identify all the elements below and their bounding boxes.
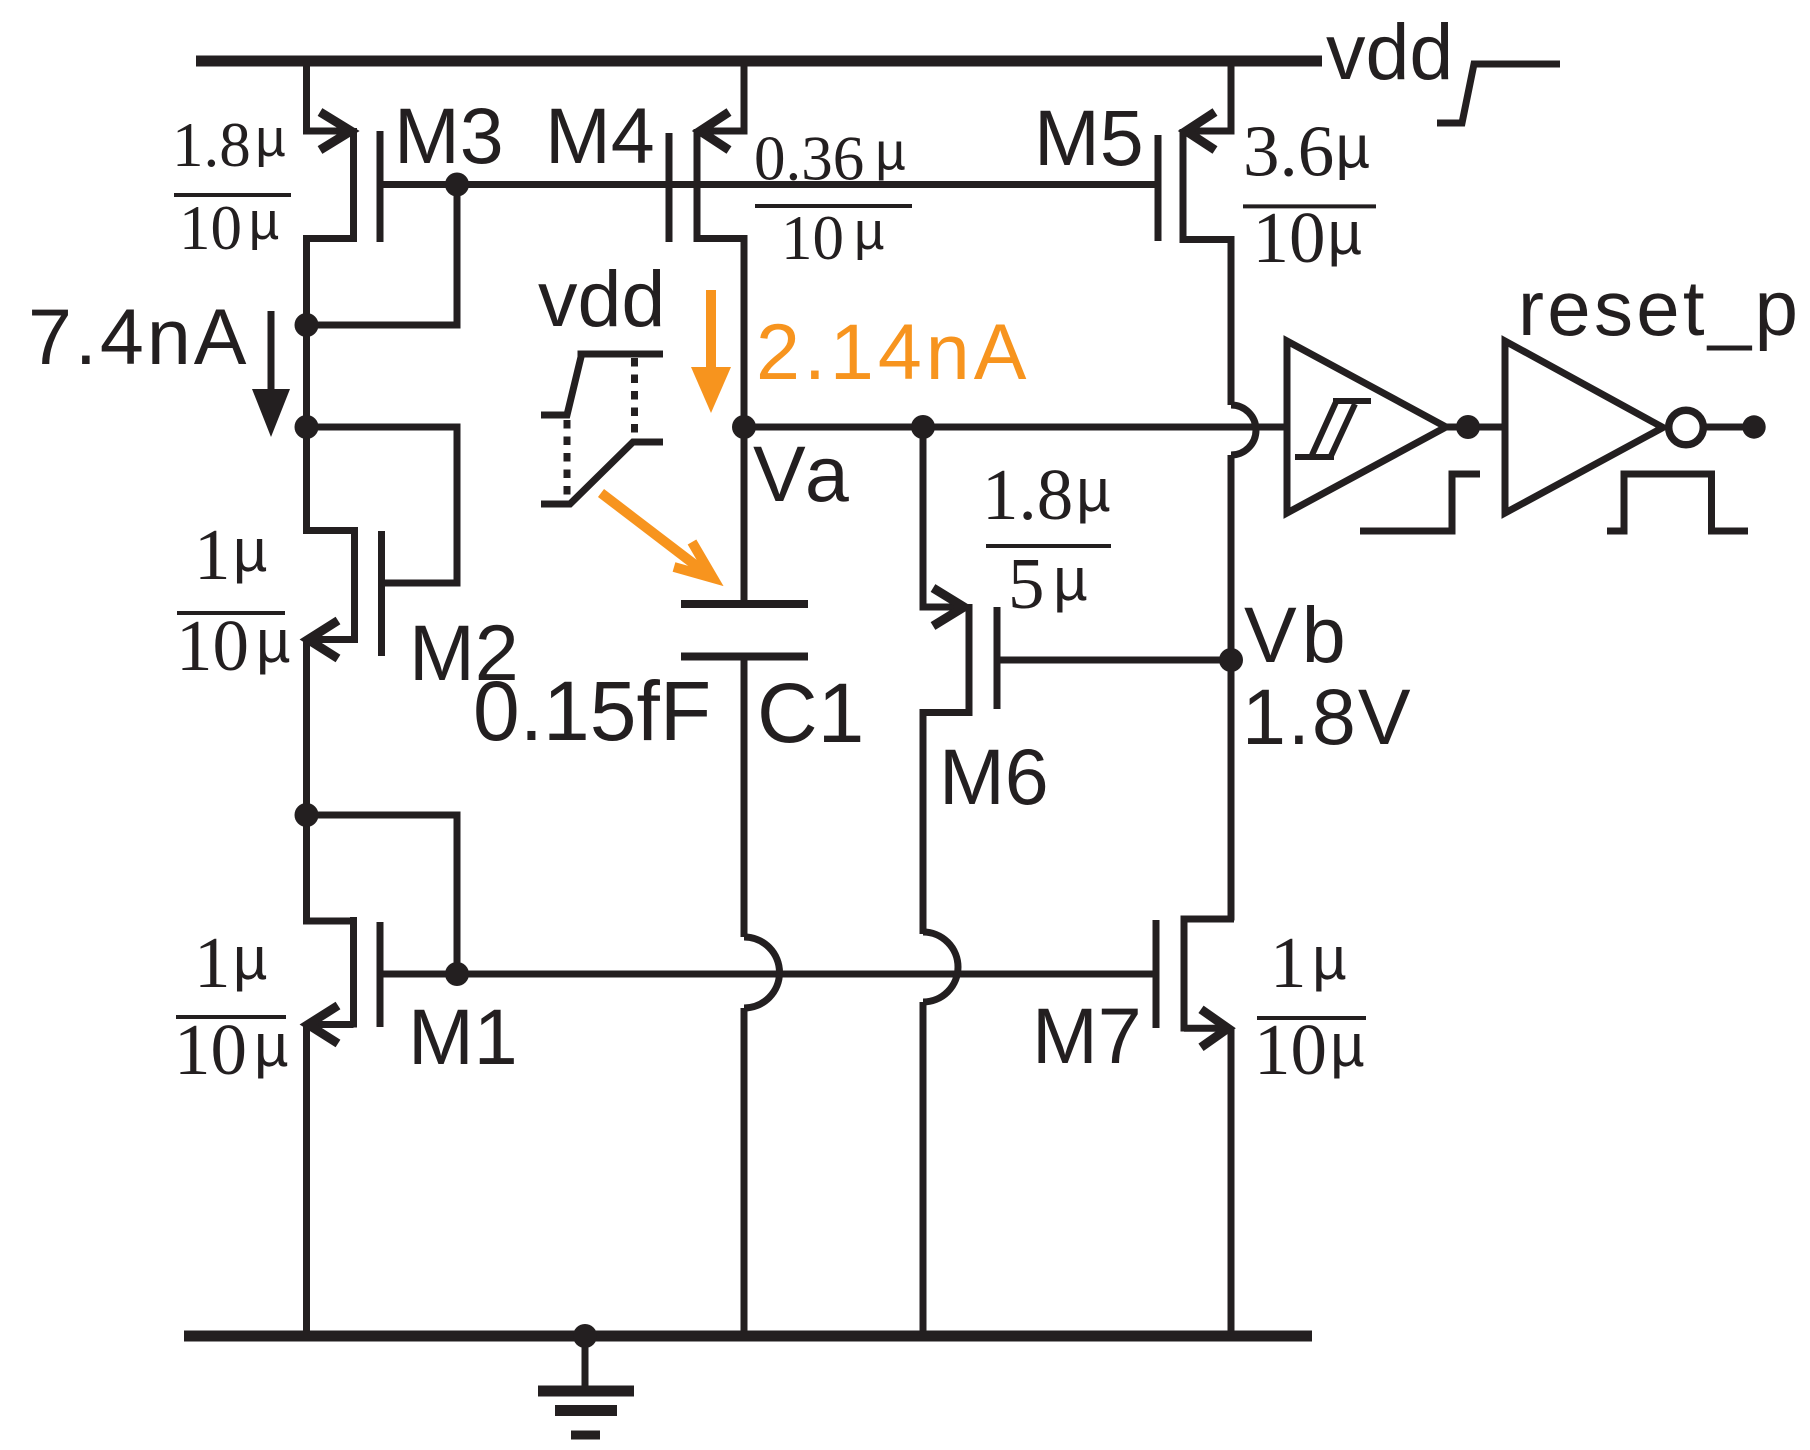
gate wire M3-M4-M5 <box>383 181 1155 188</box>
M2 top lead <box>303 527 355 534</box>
transistor M3 channel <box>350 128 357 242</box>
svg-text:2.14nA: 2.14nA <box>756 307 1030 396</box>
svg-text:M5: M5 <box>1034 93 1144 182</box>
M2 bottom lead <box>310 636 355 643</box>
wire inverter out <box>1703 424 1744 431</box>
svg-text:M1: M1 <box>408 992 518 1081</box>
capacitor C1 top plate <box>681 600 808 608</box>
transistor M5 gate bar <box>1155 135 1162 241</box>
wire schmitt out to inverter <box>1446 424 1502 431</box>
junction dot ground <box>573 1324 597 1348</box>
transistor M4 source arrow <box>700 112 729 150</box>
M1 gate tie wire <box>307 815 458 974</box>
capacitor C1 bottom plate <box>681 653 808 661</box>
transistor M7 channel <box>1181 916 1188 1032</box>
wire M2 drain down to M1 <box>303 640 310 925</box>
svg-text:10µ: 10µ <box>174 1009 289 1090</box>
junction dot M1 gate node <box>295 803 319 827</box>
M7 source lead <box>1184 1025 1227 1032</box>
junction dot node Vb <box>1219 648 1243 672</box>
inverter U2 triangle <box>1505 341 1663 513</box>
wire vdd to M3 source <box>303 56 310 135</box>
orange pointer arrow to C1 <box>601 493 713 578</box>
M3 drain lead <box>307 239 354 329</box>
ground symbol <box>582 1336 589 1391</box>
pulse symbol at output <box>1607 474 1748 531</box>
M3 size label 1.8u/10u <box>172 109 286 263</box>
svg-text:3.6µ: 3.6µ <box>1243 111 1370 192</box>
transistor M4 channel <box>694 129 701 242</box>
transistor M7 gate bar <box>1153 920 1160 1028</box>
svg-text:1.8µ: 1.8µ <box>172 109 286 180</box>
wire C1 to ground rail with hop <box>741 657 748 938</box>
waveform dashed drop right <box>631 358 638 438</box>
M5 size label 3.6u/10u <box>1243 111 1370 279</box>
transistor M1 source arrow <box>308 1006 338 1044</box>
M5 wire hop over Va wire <box>1231 405 1256 455</box>
transistor M3 source arrow <box>320 112 351 150</box>
transistor M3 source lead <box>303 128 348 135</box>
svg-text:5µ: 5µ <box>1008 543 1088 624</box>
gate wire M1-M7 <box>383 971 1154 978</box>
svg-text:vdd: vdd <box>538 254 665 343</box>
transistor M5 source arrow <box>1186 112 1215 150</box>
M6 size label 1.8u/5u <box>982 454 1111 624</box>
transistor M6 channel <box>966 604 973 716</box>
svg-text:M7: M7 <box>1032 991 1142 1080</box>
vdd rising-edge symbol <box>1437 64 1560 123</box>
transistor M2 source arrow <box>308 621 338 659</box>
wire M6 drain to ground rail <box>920 1002 927 1336</box>
M4 size label 0.36u/10u <box>754 123 906 274</box>
ground rail <box>184 1331 1312 1342</box>
vdd rail <box>196 56 1322 67</box>
wire M5 drain to Vb <box>1228 455 1235 921</box>
junction dot M1 gate <box>445 962 469 986</box>
transistor M4 gate bar <box>666 133 673 242</box>
M7 drain lead <box>1184 916 1234 923</box>
schmitt hysteresis glyph <box>1295 401 1371 458</box>
transistor M1 gate bar <box>377 922 384 1027</box>
svg-text:10µ: 10µ <box>1254 1009 1365 1090</box>
junction dot schmitt output <box>1456 415 1480 439</box>
svg-text:Va: Va <box>753 429 854 518</box>
svg-text:1µ: 1µ <box>194 922 267 1003</box>
M1 top lead <box>303 918 354 925</box>
inverter bubble <box>1669 410 1704 445</box>
Va waveform icon curve <box>541 442 663 504</box>
svg-text:10µ: 10µ <box>176 605 291 686</box>
M2 gate tie wire <box>307 427 458 583</box>
wire vdd to M5 source <box>1228 56 1235 135</box>
wire Va node down to M6 <box>920 427 927 611</box>
M2 size label 1u/10u <box>176 514 291 686</box>
svg-text:10µ: 10µ <box>1253 197 1363 278</box>
svg-text:M6: M6 <box>939 732 1049 821</box>
svg-text:1µ: 1µ <box>194 514 267 595</box>
wire M1 source to ground rail <box>303 1024 310 1336</box>
junction dot gate line <box>445 173 469 197</box>
svg-text:reset_p: reset_p <box>1518 264 1801 352</box>
transistor M5 channel <box>1180 129 1187 243</box>
M4 source lead <box>702 128 747 135</box>
svg-text:Vb: Vb <box>1244 590 1351 679</box>
svg-text:1µ: 1µ <box>1270 922 1347 1003</box>
M6 gate lead to Vb <box>1000 657 1231 664</box>
M6 drain lead <box>923 713 969 935</box>
M5 source lead <box>1188 128 1234 135</box>
transistor M6 gate bar <box>994 607 1001 709</box>
transistor M2 gate bar <box>378 531 385 656</box>
svg-text:10µ: 10µ <box>781 202 885 273</box>
svg-text:1.8µ: 1.8µ <box>982 454 1111 535</box>
M4 drain lead <box>697 239 744 428</box>
M1 size label 1u/10u <box>174 922 289 1090</box>
transistor M7 source arrow <box>1201 1009 1228 1047</box>
M6 wire hop over gate wire <box>923 932 958 1002</box>
wire M3 drain to M2 <box>303 325 310 534</box>
svg-text:10µ: 10µ <box>179 192 279 263</box>
vdd waveform icon curve <box>541 354 663 415</box>
junction dot node Va <box>732 415 756 439</box>
M5 drain lead <box>1183 240 1231 406</box>
node M3 gate tie-down wire <box>307 185 458 326</box>
waveform dashed drop left <box>564 420 571 500</box>
transistor M3 gate bar <box>377 131 384 242</box>
wire vdd to M4 source <box>741 56 748 135</box>
svg-text:1.8V: 1.8V <box>1242 672 1413 761</box>
junction dot M3 drain node <box>295 313 319 337</box>
7.4nA current arrow <box>268 311 275 392</box>
schmitt trigger U1 triangle <box>1287 341 1446 513</box>
rising step symbol at schmitt output <box>1360 474 1480 531</box>
M1 bottom lead <box>310 1021 354 1028</box>
transistor M6 source arrow <box>933 588 964 626</box>
transistor M1 channel <box>350 917 357 1028</box>
junction dot M2 gate node <box>295 415 319 439</box>
svg-text:vdd: vdd <box>1326 7 1453 96</box>
svg-text:0.15fF: 0.15fF <box>473 664 711 758</box>
svg-text:M3: M3 <box>394 91 504 180</box>
Va wire to schmitt input <box>744 424 1287 431</box>
svg-text:C1: C1 <box>757 666 864 760</box>
svg-text:M4: M4 <box>545 91 655 180</box>
transistor M2 channel <box>351 527 358 643</box>
wire M7 source to ground rail <box>1228 1028 1235 1336</box>
junction dot M6 branch <box>911 415 935 439</box>
wire Va to C1 <box>741 427 748 604</box>
svg-text:7.4nA: 7.4nA <box>28 292 249 381</box>
M7 size label 1u/10u <box>1254 922 1365 1090</box>
output terminal dot <box>1742 415 1765 438</box>
2.14nA current arrow <box>706 290 716 373</box>
M6 source lead <box>920 604 963 611</box>
